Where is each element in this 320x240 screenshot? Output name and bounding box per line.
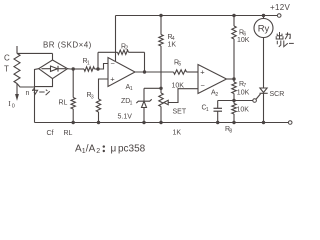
svg-text:RL: RL — [59, 100, 68, 107]
svg-text:Cf: Cf — [47, 130, 54, 137]
svg-text:−: − — [201, 81, 206, 90]
svg-text:5.1V: 5.1V — [118, 114, 133, 121]
svg-text:2: 2 — [215, 92, 218, 98]
svg-text:Ry: Ry — [258, 24, 270, 35]
svg-text:1: 1 — [130, 101, 133, 107]
svg-text:2: 2 — [125, 46, 128, 52]
svg-text:1K: 1K — [168, 41, 177, 48]
svg-text:3: 3 — [91, 94, 94, 100]
svg-text:SCR: SCR — [270, 91, 285, 98]
svg-text:SET: SET — [173, 109, 187, 116]
svg-text:μ: μ — [111, 144, 117, 155]
svg-text:C: C — [4, 54, 10, 63]
svg-text:1: 1 — [206, 107, 209, 113]
svg-text:5: 5 — [178, 62, 181, 68]
svg-text:−: − — [111, 59, 116, 68]
svg-text:0: 0 — [12, 103, 15, 109]
svg-text:+: + — [110, 75, 115, 84]
svg-text:2: 2 — [96, 148, 100, 155]
svg-text:n: n — [26, 90, 30, 97]
svg-text:pc358: pc358 — [118, 144, 146, 155]
svg-text:1: 1 — [87, 60, 90, 66]
svg-text:BR (SKD×4): BR (SKD×4) — [43, 41, 92, 50]
svg-text:7: 7 — [243, 83, 246, 89]
svg-text:T: T — [4, 65, 9, 74]
svg-text:RL: RL — [64, 130, 73, 137]
svg-text:+12V: +12V — [270, 3, 290, 12]
svg-text:1K: 1K — [173, 130, 182, 137]
svg-text:1: 1 — [130, 86, 133, 92]
svg-text:10K: 10K — [237, 89, 250, 96]
svg-text:+: + — [200, 68, 205, 77]
svg-text:/A: /A — [86, 144, 96, 155]
svg-text:8: 8 — [229, 128, 232, 134]
svg-text:10K: 10K — [237, 106, 250, 113]
svg-text:10K: 10K — [237, 37, 250, 44]
